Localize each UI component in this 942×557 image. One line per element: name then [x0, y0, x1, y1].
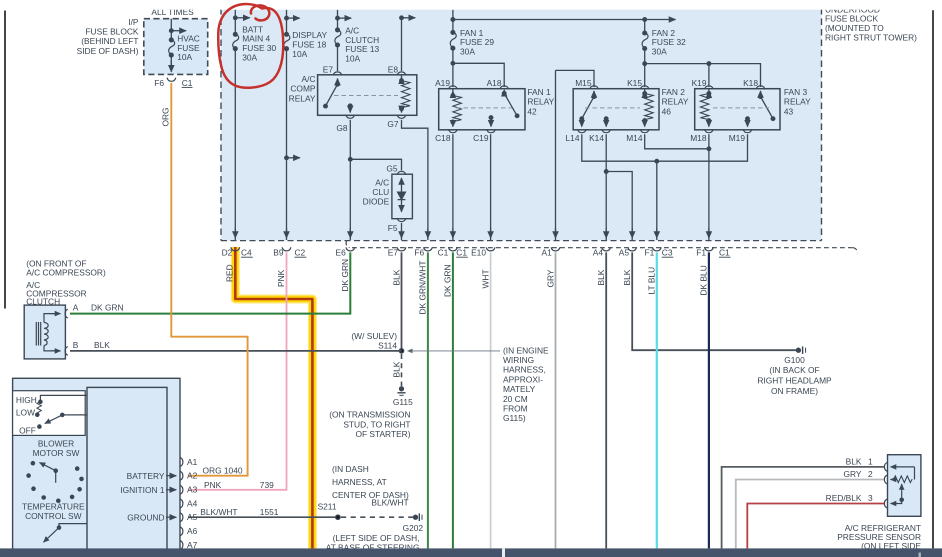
wire WHT (E10) — [490, 252, 492, 548]
connector sensor pin 1 — [884, 463, 887, 472]
wire M18 to F1(C1) row — [708, 134, 710, 240]
connector K14 — [602, 129, 611, 133]
svg-text:E6: E6 — [336, 247, 347, 257]
bottom application bar — [0, 548, 942, 557]
wire L14 to M19 link — [582, 134, 748, 161]
switch assembly inner connector box — [87, 387, 167, 557]
pin K14 contact with exit arrow — [604, 117, 608, 121]
A/C refrigerant pressure sensor internals: pin 1 wire — [897, 466, 915, 468]
wire BLK/WHT pin A5 to S211 — [188, 516, 338, 518]
svg-text:C1: C1 — [438, 247, 449, 257]
svg-text:S211: S211 — [318, 502, 337, 512]
coil FAN2 relay (K15-M14) — [644, 89, 646, 94]
svg-text:RELAY: RELAY — [527, 97, 554, 107]
svg-text:K19: K19 — [692, 78, 707, 88]
diode internal: entry arrow, diode symbol, exit arrow — [401, 178, 403, 192]
wire K14 to A4 row — [605, 134, 607, 240]
node BATT tap — [235, 17, 250, 19]
fuse FAN 1 FUSE 29 30A — [451, 31, 455, 35]
svg-text:F6: F6 — [154, 78, 164, 88]
svg-text:BLK: BLK — [622, 269, 632, 285]
connector M18 — [705, 129, 714, 133]
svg-text:(IN DASH: (IN DASH — [332, 464, 369, 474]
svg-text:PNK: PNK — [204, 480, 222, 490]
A/C compressor clutch coil L1 — [35, 322, 37, 346]
wire BLK (A4) — [605, 252, 607, 548]
svg-text:DK GRN: DK GRN — [91, 303, 124, 313]
svg-text:LOW: LOW — [16, 407, 35, 417]
connector F6 row — [424, 247, 433, 251]
connector E6 — [346, 247, 355, 251]
svg-text:A2: A2 — [187, 471, 198, 481]
svg-text:M14: M14 — [626, 133, 643, 143]
fuse FAN 2 FUSE 32 30A — [644, 20, 646, 34]
node HVAC tap — [171, 30, 186, 32]
wire A/C CLUTCH fuse to E7 — [337, 45, 339, 71]
svg-text:G115): G115) — [503, 413, 526, 423]
lower lever (mode switch) — [59, 524, 87, 528]
switch FAN3 relay (K18) — [760, 91, 762, 97]
temperature control switch contact dots — [31, 462, 34, 465]
wire branch to A5 row — [606, 172, 632, 241]
temperature switch lever — [54, 469, 57, 472]
wire BLK (E7) to S114 — [401, 252, 403, 351]
svg-text:(IN ENGINE: (IN ENGINE — [503, 345, 549, 355]
connector D2/C4 — [231, 247, 240, 251]
svg-text:WHT: WHT — [480, 269, 490, 288]
ground G115 symbol — [400, 387, 404, 391]
svg-text:L14: L14 — [566, 133, 580, 143]
svg-text:BLOWER: BLOWER — [38, 438, 74, 448]
connector F1/C1 — [705, 247, 714, 251]
svg-text:BLK: BLK — [391, 269, 401, 285]
svg-text:M19: M19 — [729, 133, 746, 143]
wire BLK sensor pin 1 — [722, 467, 884, 549]
fuse BATT MAIN 4 FUSE 30 30A — [233, 32, 237, 36]
connector C19 — [487, 129, 496, 133]
diode D1 A/C CLU DIODE box — [392, 174, 413, 219]
node S211 splice — [336, 515, 340, 519]
wire G7 to F6 column — [402, 120, 428, 240]
relay center dashed link — [456, 107, 512, 109]
svg-text:A4: A4 — [187, 498, 198, 508]
svg-text:FUSE BLOCK: FUSE BLOCK — [85, 27, 138, 37]
resistor blower (HIGH-LOW) — [37, 402, 42, 413]
svg-text:DK BLU: DK BLU — [699, 265, 709, 295]
node K19/K18 branch — [643, 62, 647, 66]
switch A/C COMP relay contact — [336, 83, 340, 87]
connector B9/C2 — [282, 247, 291, 251]
connector A1 — [551, 247, 560, 251]
relay FAN 1 RELAY 42 box — [439, 89, 525, 130]
svg-text:WIRING: WIRING — [503, 355, 534, 365]
svg-text:46: 46 — [662, 106, 672, 116]
svg-text:30A: 30A — [242, 53, 257, 63]
ground G100 symbol — [796, 348, 800, 352]
svg-text:10A: 10A — [292, 49, 307, 59]
node A18 branch — [451, 62, 455, 66]
I/P fuse block (box, light blue dashed) — [144, 19, 208, 75]
svg-text:BATTERY: BATTERY — [127, 471, 165, 481]
svg-text:OF STARTER): OF STARTER) — [355, 429, 410, 439]
left page border — [4, 11, 6, 309]
white crop strip at top — [0, 0, 942, 10]
svg-text:C1: C1 — [719, 247, 730, 257]
svg-text:A7: A7 — [187, 540, 198, 550]
svg-text:LT BLU: LT BLU — [647, 267, 657, 295]
connector A18 — [500, 86, 509, 90]
connector K15 — [640, 86, 649, 90]
svg-text:A6: A6 — [187, 526, 198, 536]
wire K19 stub — [708, 64, 710, 87]
svg-text:BLK: BLK — [94, 340, 110, 350]
svg-text:CLU: CLU — [372, 187, 389, 197]
svg-text:C19: C19 — [473, 133, 489, 143]
connector C18 — [449, 129, 458, 133]
connector K18 — [756, 86, 765, 90]
node DISPLAY tap — [287, 17, 300, 19]
svg-text:C18: C18 — [435, 133, 451, 143]
svg-text:FAN 1: FAN 1 — [527, 87, 551, 97]
connector C1 pin C1 — [449, 247, 458, 251]
svg-text:20 CM: 20 CM — [503, 394, 528, 404]
wire GRY sensor pin 2 — [736, 480, 884, 549]
svg-text:A5: A5 — [187, 512, 198, 522]
svg-text:CONTROL SW: CONTROL SW — [25, 511, 82, 521]
svg-text:CLUTCH: CLUTCH — [26, 297, 60, 307]
svg-text:DIODE: DIODE — [363, 197, 390, 207]
A/C refrigerant pressure sensor box — [888, 455, 921, 517]
LOW contact — [36, 413, 39, 416]
svg-text:BLK: BLK — [596, 269, 606, 285]
wire FAN1 fuse to A19 — [452, 48, 454, 87]
relay center dashed link — [585, 107, 640, 109]
switch FAN2 relay (M15) — [593, 91, 595, 97]
connector L14 — [577, 129, 586, 133]
svg-text:FAN 2: FAN 2 — [662, 87, 686, 97]
svg-text:43: 43 — [784, 106, 794, 116]
wire RED (D2/C4) under highlight — [234, 252, 236, 258]
node G8/G5 junction — [349, 158, 353, 162]
node FAN1 tap — [451, 18, 455, 22]
svg-text:E10: E10 — [471, 247, 486, 257]
svg-text:RELAY: RELAY — [662, 97, 689, 107]
wire BLK/WHT dashed S211 to G202 — [341, 516, 414, 518]
wire FAN feed line — [452, 10, 454, 33]
svg-text:739: 739 — [260, 480, 274, 490]
svg-text:A1: A1 — [187, 457, 198, 467]
node A/C CLUTCH tap — [338, 17, 352, 19]
relay FAN 2 RELAY 46 box — [573, 89, 659, 130]
coil FAN1 relay (A19-C18) — [452, 89, 454, 96]
svg-text:42: 42 — [527, 106, 537, 116]
blower switch inner sub-box (HIGH/LOW/OFF) — [13, 391, 86, 436]
svg-text:RED: RED — [225, 264, 235, 282]
ground G202 symbol — [414, 515, 418, 519]
svg-text:RIGHT STRUT TOWER): RIGHT STRUT TOWER) — [825, 32, 917, 42]
wire A/C CLUTCH feed — [337, 10, 339, 30]
pin G8 contact with exit arrow — [348, 104, 352, 108]
svg-text:TEMPERATURE: TEMPERATURE — [22, 502, 85, 512]
svg-text:A1: A1 — [542, 247, 553, 257]
connector M14 — [640, 129, 649, 133]
svg-text:2: 2 — [868, 469, 873, 479]
wire G8 junction to diode G5 — [350, 159, 401, 170]
svg-text:G5: G5 — [386, 163, 398, 173]
svg-text:FROM: FROM — [503, 404, 528, 414]
pin M19 contact with exit arrow — [746, 117, 750, 121]
wire PNK (B9/C2) to pin A3 — [188, 252, 287, 489]
A/C compressor clutch box — [24, 305, 65, 359]
wire LT BLU (F1/C3) — [656, 252, 658, 548]
node S114 splice — [399, 349, 403, 353]
svg-text:(ON TRANSMISSION: (ON TRANSMISSION — [329, 410, 410, 420]
wire M14 to M18 link — [645, 134, 709, 149]
svg-text:BLK: BLK — [391, 361, 401, 377]
svg-text:G115: G115 — [393, 397, 413, 407]
connector G8 — [346, 115, 355, 119]
svg-text:K18: K18 — [743, 78, 758, 88]
svg-text:FAN 3: FAN 3 — [784, 87, 808, 97]
fuse DISPLAY FUSE 18 10A — [285, 32, 289, 36]
svg-text:HIGH: HIGH — [16, 395, 37, 405]
connector F1/C3 — [652, 247, 661, 251]
svg-text:MOTOR SW: MOTOR SW — [33, 448, 80, 458]
svg-text:M15: M15 — [575, 78, 592, 88]
svg-text:C3: C3 — [662, 247, 673, 257]
svg-text:30A: 30A — [460, 47, 475, 57]
svg-text:(IN BACK OF: (IN BACK OF — [769, 365, 819, 375]
svg-text:E7: E7 — [388, 247, 399, 257]
svg-text:1: 1 — [868, 456, 873, 466]
node E8 tap — [402, 17, 416, 19]
svg-text:C1: C1 — [182, 78, 193, 88]
wire GRY (A1) — [555, 252, 557, 548]
pin GROUND arrow — [166, 516, 176, 518]
connector A5 — [628, 247, 637, 251]
connector K19 — [705, 86, 714, 90]
OFF contact — [38, 425, 41, 428]
wire HIGH contact to inner box — [40, 395, 87, 401]
svg-text:ORG 1040: ORG 1040 — [203, 466, 243, 476]
svg-text:30A: 30A — [652, 47, 667, 57]
blower switch lever — [61, 413, 64, 416]
connector A4 — [602, 247, 611, 251]
svg-text:K14: K14 — [589, 133, 604, 143]
blower motor switch contacts: HIGH contact — [39, 400, 42, 403]
svg-text:HARNESS,: HARNESS, — [503, 365, 546, 375]
wire M15 feed from A1 — [556, 70, 595, 87]
svg-text:RIGHT HEADLAMP: RIGHT HEADLAMP — [757, 376, 832, 386]
svg-text:B9: B9 — [273, 247, 284, 257]
connector E8 — [397, 72, 406, 76]
svg-text:G202: G202 — [403, 523, 424, 533]
svg-text:10A: 10A — [345, 54, 360, 64]
wire drop to F1(C3) row — [656, 161, 658, 240]
svg-text:F1: F1 — [645, 247, 655, 257]
svg-text:STUD, TO RIGHT: STUD, TO RIGHT — [343, 419, 410, 429]
svg-text:GRY: GRY — [844, 469, 862, 479]
svg-text:DK GRN/WHT: DK GRN/WHT — [418, 261, 428, 315]
svg-text:DK GRN: DK GRN — [442, 264, 452, 297]
wire BLK (A5) to G100 — [632, 252, 797, 350]
svg-text:ORG: ORG — [161, 107, 171, 126]
fuse A/C CLUTCH FUSE 13 10A — [336, 28, 340, 32]
connector pin B — [65, 347, 68, 356]
wire coil to pin A — [44, 314, 56, 323]
pin C19 contact with exit arrow — [489, 116, 493, 120]
wire BATT fuse to D2 — [234, 49, 236, 240]
relay center dashed link — [334, 95, 398, 97]
connector sensor pin 3 — [884, 499, 887, 508]
wire FAN2 fuse to K15 — [644, 49, 646, 88]
svg-text:C2: C2 — [295, 247, 306, 257]
pin 3 wire and wiper — [895, 500, 902, 504]
wire DK GRN/WHT (F6) — [427, 252, 429, 548]
connector A19 — [449, 86, 458, 90]
wire DK GRN (E6) to compressor clutch pin A — [70, 252, 350, 313]
svg-text:K15: K15 — [627, 78, 642, 88]
svg-text:G7: G7 — [387, 119, 399, 129]
node F1(C3) drop junction — [655, 159, 659, 163]
right page border — [932, 10, 934, 548]
svg-text:A/C: A/C — [302, 74, 316, 84]
wire F5 to E7 row — [401, 223, 403, 240]
wire DK GRN (C1) — [452, 252, 454, 548]
svg-text:ON FRAME): ON FRAME) — [771, 386, 818, 396]
svg-text:GRY: GRY — [545, 269, 555, 287]
svg-text:1551: 1551 — [260, 507, 279, 517]
connector M15 — [590, 86, 599, 90]
svg-text:S114: S114 — [378, 340, 397, 350]
svg-text:A18: A18 — [487, 78, 502, 88]
svg-text:RELAY: RELAY — [289, 93, 316, 103]
svg-text:E8: E8 — [388, 64, 399, 74]
wire E8 feed — [401, 18, 403, 71]
node B9 tap — [287, 157, 300, 159]
node A5 branch junction — [604, 170, 608, 174]
svg-text:B: B — [73, 340, 79, 350]
connector sensor pin 2 — [884, 475, 887, 484]
wire RED/BLK sensor pin 3 — [747, 504, 884, 549]
svg-text:BLK: BLK — [846, 456, 862, 466]
svg-text:A19: A19 — [435, 78, 450, 88]
svg-text:D2: D2 — [222, 247, 233, 257]
svg-text:PNK: PNK — [276, 269, 286, 287]
svg-text:3: 3 — [868, 493, 873, 503]
relay center dashed link — [713, 107, 769, 109]
node FAN2 tap — [643, 18, 647, 22]
resistor R sensor element — [894, 476, 913, 483]
pointer line from harness note to S114 — [408, 350, 501, 352]
wire DISPLAY feed — [286, 10, 288, 35]
relay FAN 3 RELAY 43 box — [695, 89, 780, 130]
svg-text:BLK/WHT: BLK/WHT — [200, 507, 237, 517]
svg-text:OFF: OFF — [19, 425, 36, 435]
coil FAN3 relay (K19-M18) — [708, 89, 710, 94]
svg-text:RED/BLK: RED/BLK — [826, 493, 862, 503]
underhood fuse block (box, light blue dashed) — [221, 6, 822, 241]
svg-text:I/P: I/P — [128, 17, 139, 27]
pin IGNITION 1 arrow — [166, 489, 176, 491]
connector F6 / C1 — [167, 78, 176, 82]
wire C19 to E10 row — [490, 134, 492, 240]
wire DISPLAY fuse to B9 — [286, 49, 288, 240]
connector E7 — [333, 72, 342, 76]
svg-text:F6: F6 — [414, 247, 424, 257]
svg-text:E7: E7 — [323, 64, 334, 74]
svg-text:A/C COMPRESSOR): A/C COMPRESSOR) — [26, 268, 106, 278]
svg-text:DK GRN: DK GRN — [340, 259, 350, 292]
svg-text:COMP: COMP — [290, 84, 316, 94]
svg-text:(BEHIND LEFT: (BEHIND LEFT — [81, 36, 138, 46]
svg-text:A4: A4 — [593, 247, 604, 257]
connector F5 — [397, 218, 406, 222]
svg-text:BLK/WHT: BLK/WHT — [371, 498, 408, 508]
svg-text:F1: F1 — [696, 247, 706, 257]
svg-text:HARNESS, AT: HARNESS, AT — [332, 477, 387, 487]
svg-text:RELAY: RELAY — [784, 97, 811, 107]
connector G7 — [397, 115, 406, 119]
pin E7 entry arrow — [337, 79, 339, 85]
pin BATTERY arrow — [166, 475, 176, 477]
svg-text:A3: A3 — [187, 485, 198, 495]
wire BLK compressor clutch pin B to S114 — [70, 350, 402, 352]
svg-text:A: A — [73, 303, 79, 313]
connector row dashed line (underhood fuse block connector C1) — [346, 241, 349, 248]
connector E10 — [486, 247, 495, 251]
wire G8 to E6 — [349, 120, 351, 240]
annotation: hand-drawn red circle around BATT MAIN 4 fuse — [218, 4, 283, 88]
wire C18 to C1 row — [452, 134, 454, 240]
wire HVAC fuse to F6 — [170, 55, 172, 66]
wire A1 to fuse block edge — [555, 70, 557, 240]
wire DK BLU (F1/C1) — [708, 252, 710, 548]
wire ORG F6/C1 to pin A2 — [171, 83, 247, 476]
connector M19 — [743, 129, 752, 133]
op-amp n/a : relay U A/C COMP RELAY box — [318, 75, 417, 116]
svg-text:M18: M18 — [690, 133, 707, 143]
svg-text:A5: A5 — [619, 247, 630, 257]
switch FAN1 relay (A18) — [503, 90, 505, 94]
svg-text:A/C: A/C — [375, 177, 389, 187]
svg-text:F5: F5 — [388, 223, 398, 233]
fuse HVAC 10A — [169, 38, 173, 42]
svg-text:SIDE OF DASH): SIDE OF DASH) — [77, 46, 139, 56]
connector pins A1-A7 — [180, 458, 183, 467]
svg-text:G100: G100 — [784, 355, 805, 365]
svg-text:10A: 10A — [177, 52, 192, 62]
highlighted circuit trace (yellow) over RED wire D2/C4 path — [235, 247, 312, 548]
svg-text:C4: C4 — [241, 247, 252, 257]
wire HVAC feed — [170, 19, 172, 40]
wire BLK dashed S114 to G115 — [401, 354, 403, 386]
connector pin A — [65, 309, 68, 318]
svg-text:(LEFT SIDE OF DASH,: (LEFT SIDE OF DASH, — [333, 533, 420, 543]
blower/temperature switch assembly box — [13, 378, 180, 557]
svg-text:MATELY: MATELY — [503, 384, 536, 394]
svg-text:C1: C1 — [456, 247, 467, 257]
wire BATT MAIN feed — [234, 10, 236, 35]
svg-text:APPROXI-: APPROXI- — [503, 374, 543, 384]
connector E7 row — [397, 247, 406, 251]
wire coil to pin B — [44, 346, 56, 351]
svg-text:IGNITION 1: IGNITION 1 — [120, 485, 165, 495]
svg-text:GROUND: GROUND — [127, 512, 164, 522]
svg-text:G8: G8 — [336, 123, 348, 133]
connector G5 — [397, 171, 406, 175]
coil A/C COMP relay (E8-G7) — [401, 75, 403, 81]
